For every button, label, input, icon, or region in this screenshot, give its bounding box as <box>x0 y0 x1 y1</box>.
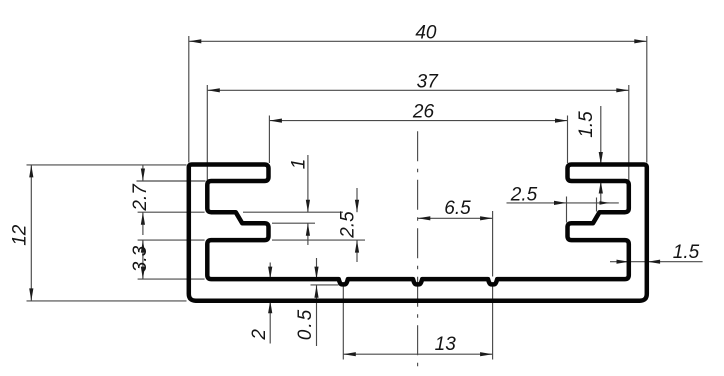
arrow 2.7 top <box>141 169 145 182</box>
arrow 26 right <box>555 119 568 123</box>
extension line left notch (13) <box>342 286 344 360</box>
svg-text:6.5: 6.5 <box>444 198 471 219</box>
dimension 1 upper tail <box>307 155 309 212</box>
extension line left (37) <box>206 85 208 181</box>
dimension 3.3 line <box>142 240 144 279</box>
dimension 1.5 top upper tail <box>600 106 602 165</box>
dimension 2 upper tail <box>269 263 271 280</box>
dimension 2.5 middle upper tail <box>356 188 358 212</box>
arrow 1 bottom <box>306 223 310 236</box>
dimension 1.5 top lower tail <box>600 181 602 203</box>
dimension 13 line <box>343 353 492 355</box>
extension line top left (40) <box>188 36 190 163</box>
extension line right notch (6.5) <box>492 211 494 277</box>
arrow 3.3 top <box>141 240 145 253</box>
svg-text:26: 26 <box>412 102 435 123</box>
extension line right (37) <box>628 85 630 181</box>
svg-text:1.5: 1.5 <box>576 111 597 138</box>
arrow 0.5 bottom <box>314 285 318 298</box>
dimension 1 lower tail <box>307 223 309 245</box>
arrow 2.7 bottom <box>141 212 145 225</box>
extension line plate top left <box>138 278 205 280</box>
extension line tooth bottom left <box>138 239 205 241</box>
dimension 40 line <box>189 40 647 42</box>
arrow 3.3 bottom <box>141 267 145 280</box>
arrow 1.5 top lower <box>599 181 603 194</box>
dimension 1.5 bottom right line <box>610 261 703 263</box>
arrow 12 bottom <box>29 288 33 301</box>
extension line right notch (13) <box>492 286 494 360</box>
svg-text:2: 2 <box>249 329 270 341</box>
arrow 6.5 left <box>418 216 431 220</box>
arrow 2.5 right left <box>554 201 567 205</box>
dimension 2.7 upper tail <box>142 166 144 182</box>
arrow 37 right <box>616 88 629 92</box>
dimension 6.5 line <box>418 217 493 219</box>
extension line tooth top middle <box>243 211 343 213</box>
dimension 12 line <box>30 165 32 301</box>
dimension 37 line <box>207 89 629 91</box>
arrow 2.5 middle top <box>355 200 359 213</box>
svg-text:1: 1 <box>288 159 309 170</box>
arrow 1.5 bottom right right <box>648 260 661 264</box>
dimension 2.5 right line <box>507 202 619 204</box>
extension line arm underside left <box>137 180 206 182</box>
svg-text:3.3: 3.3 <box>130 245 151 272</box>
arrow 13 left <box>343 352 356 356</box>
extension line top right (40) <box>646 36 648 163</box>
svg-text:40: 40 <box>415 23 437 44</box>
svg-text:2.7: 2.7 <box>130 183 151 212</box>
dimension 0.5 lower tail <box>316 285 318 346</box>
svg-text:2.5: 2.5 <box>338 211 359 239</box>
arrow 2.5 right right <box>600 201 610 205</box>
centerline <box>417 131 419 373</box>
arrow 37 left <box>207 88 220 92</box>
extension line right (26) <box>567 116 569 164</box>
arrow 13 right <box>480 352 493 356</box>
arrow 26 left <box>269 119 282 123</box>
extension line notch bottom <box>311 284 339 286</box>
extension line step surface <box>272 222 315 224</box>
arrow 0.5 top <box>314 267 318 280</box>
extension line arm tip right (2.5) <box>566 197 568 223</box>
profile outline <box>189 165 647 301</box>
svg-text:1.5: 1.5 <box>673 242 700 263</box>
arrow 1 top <box>306 200 310 213</box>
arrow 12 top <box>29 165 33 178</box>
svg-text:2.5: 2.5 <box>510 185 538 206</box>
extension line top of profile (12) <box>27 164 187 166</box>
svg-text:13: 13 <box>435 334 457 355</box>
dimension 0.5 upper tail <box>316 258 318 279</box>
arrow 2 top <box>268 267 272 280</box>
svg-text:37: 37 <box>417 72 440 93</box>
dimension 2 lower tail <box>269 301 271 344</box>
arrow 2 bottom <box>268 301 272 314</box>
arrow 1.5 top upper <box>599 152 603 165</box>
dimension 2.7 lower tail <box>142 212 144 235</box>
arrow 1.5 bottom right left <box>617 260 630 264</box>
extension line bottom of profile (12) <box>27 300 187 302</box>
extension line left (26) <box>268 116 270 164</box>
arrow 2.5 middle bottom <box>355 240 359 253</box>
extension line tooth top left <box>138 211 205 213</box>
dimension 26 line <box>269 120 567 122</box>
arrow 40 right <box>634 39 647 43</box>
extension line chamfer right (2.5) <box>596 198 598 212</box>
svg-text:12: 12 <box>10 224 31 246</box>
arrow 40 left <box>189 39 202 43</box>
arrow 6.5 right <box>480 216 493 220</box>
dimension 2.5 middle lower tail <box>356 240 358 262</box>
extension line tooth bottom middle <box>272 239 365 241</box>
svg-text:0.5: 0.5 <box>295 308 316 340</box>
